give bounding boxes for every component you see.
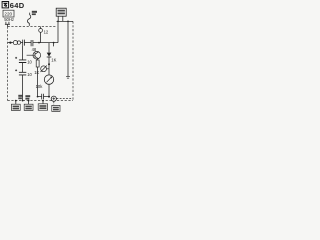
lamp XD [39, 29, 43, 33]
svg-text:10: 10 [27, 59, 32, 64]
capacitor C3 electrolytic [15, 57, 26, 63]
output socket J1 [51, 96, 56, 101]
wire resistor bottom lead [37, 67, 39, 97]
transistor Q1 [33, 51, 41, 59]
pilot lamp XD2 [13, 41, 17, 45]
svg-text:12: 12 [44, 30, 49, 35]
wire transformer leads [58, 16, 63, 21]
switch K with cord [28, 13, 31, 26]
resistor R1 [36, 60, 39, 67]
node top wire junction B [67, 21, 69, 23]
wire dashed socket to border [57, 98, 73, 100]
wire vertical to rail [57, 21, 59, 42]
node stub 1 [15, 100, 17, 102]
meter M1 [44, 75, 53, 84]
wire lamp drop [40, 27, 42, 29]
svg-text:10: 10 [27, 72, 32, 77]
figure title 图64D [2, 1, 25, 10]
capacitor C5 [42, 94, 44, 100]
pilot lamp XD3 [17, 41, 20, 44]
wire lamp to rail [40, 32, 42, 42]
svg-text:1K: 1K [51, 58, 56, 63]
wire filter cap column upper [22, 46, 24, 60]
terminal box 3 [38, 104, 47, 110]
terminal labels above boxes [18, 95, 30, 100]
svg-text:50Hz: 50Hz [4, 17, 14, 22]
terminal box 1 [11, 104, 20, 110]
wire meter bottom [48, 84, 50, 96]
node stub 3 [42, 100, 44, 102]
node rail left junction [9, 41, 11, 43]
node H [48, 96, 50, 98]
potentiometer W1 [41, 66, 47, 73]
diode D1 [47, 53, 52, 57]
terminal box 2 [24, 104, 33, 110]
node bottom rail F [22, 100, 24, 102]
wire transistor base [27, 54, 35, 56]
chassis enclosure dash-dot border [8, 21, 73, 100]
svg-text:1K: 1K [34, 70, 39, 75]
mains plug P1 [5, 22, 10, 27]
wire right branch [67, 21, 69, 76]
node rail junction C [38, 42, 40, 44]
node G [37, 96, 39, 98]
node E [48, 63, 50, 65]
wire diode to meter [48, 57, 50, 75]
svg-text:10k: 10k [36, 84, 44, 89]
wire diode branch [48, 43, 50, 53]
ground [66, 76, 70, 78]
svg-text:220: 220 [4, 12, 12, 17]
wire terminal stubs [16, 101, 43, 105]
capacitor C1 [23, 40, 25, 46]
node rail junction D [53, 42, 55, 44]
wire C4 to bottom rail [22, 75, 24, 101]
wire stub at node D [53, 43, 55, 47]
terminal box 4 [52, 105, 60, 111]
wire dashed socket to terminal box 4 [53, 101, 55, 105]
switch K label [32, 11, 37, 15]
node stub 2 [28, 100, 30, 102]
capacitor C4 electrolytic [15, 69, 26, 75]
wire bottom horizontal [38, 96, 49, 98]
wire between C3 and C4 [22, 63, 24, 73]
wire main rail [8, 42, 58, 44]
svg-text:64D: 64D [10, 1, 25, 10]
mains outlet label box 220V 50Hz [3, 10, 14, 22]
transformer B1 [56, 8, 66, 16]
capacitor C2 [31, 40, 33, 46]
node top wire junction A [57, 21, 59, 23]
wire top horizontal [57, 20, 74, 22]
wire resistor top lead [37, 59, 39, 60]
wire potentiometer arm [47, 68, 50, 70]
